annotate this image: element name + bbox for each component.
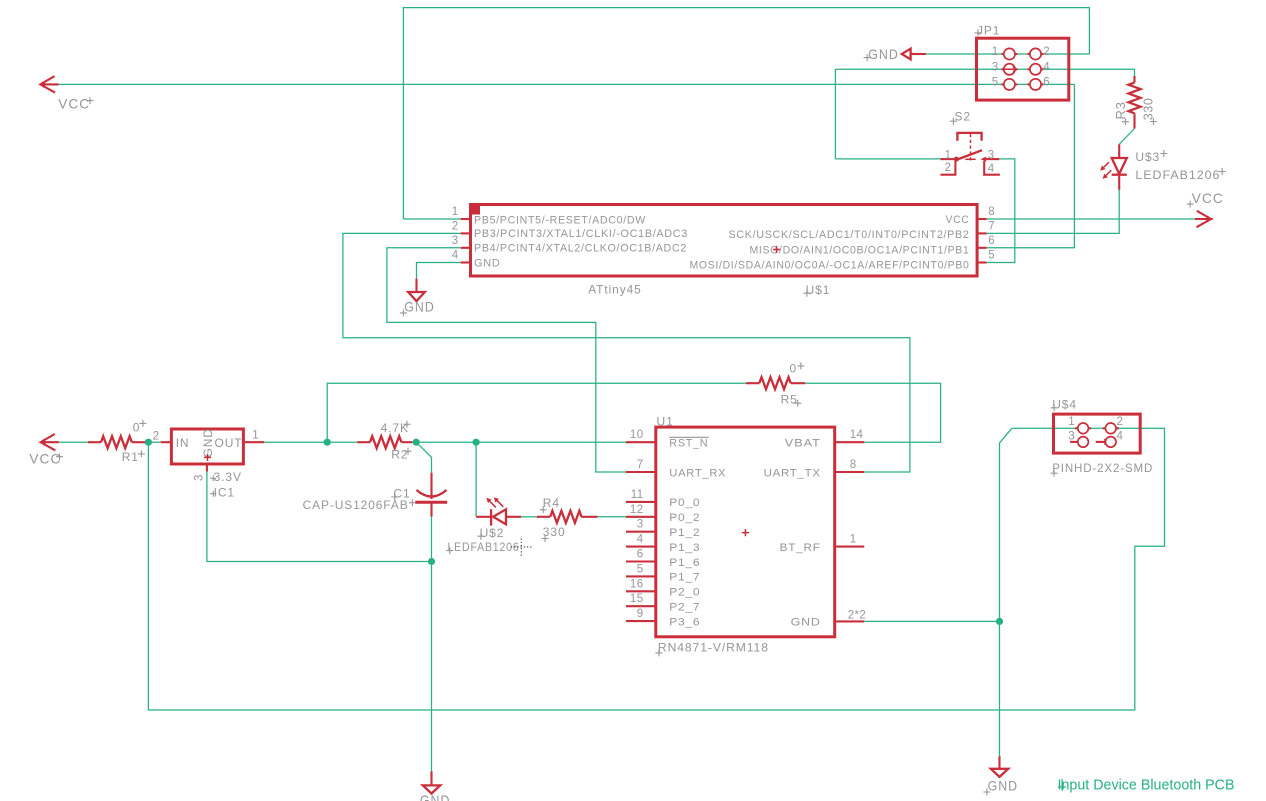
resistor R3 330 vertical	[1133, 76, 1135, 83]
LED U$3	[1118, 144, 1120, 158]
svg-text:1: 1	[452, 206, 459, 218]
svg-text:S2: S2	[955, 110, 971, 124]
wire VCC row through JP1 pins 5-6	[58, 83, 1074, 85]
svg-text:P2_7: P2_7	[669, 602, 700, 614]
svg-text:VCC: VCC	[58, 96, 90, 112]
svg-text:VCC: VCC	[29, 450, 61, 466]
IC U1 RN4871 box	[656, 427, 835, 637]
wire junction to C1 diagonal	[416, 442, 431, 473]
svg-text:R3: R3	[1113, 101, 1128, 119]
junction dot C1 branch	[413, 439, 420, 446]
wire bottom rail	[148, 428, 1164, 710]
svg-text:U$1: U$1	[806, 283, 831, 297]
ATtiny pin 3 stub	[461, 247, 469, 249]
svg-text:1: 1	[945, 149, 952, 161]
U1 pin 6 stub	[626, 560, 656, 562]
wire C1 junction down to GND	[431, 562, 433, 772]
svg-text:14: 14	[850, 429, 864, 441]
ATtiny pin 7 stub	[978, 232, 986, 234]
junction dot LED branch	[473, 439, 480, 446]
svg-text:R5: R5	[781, 393, 798, 407]
svg-text:P1_7: P1_7	[669, 572, 700, 584]
wire R5 left to junction	[327, 383, 746, 442]
svg-text:P3_6: P3_6	[669, 616, 700, 628]
wire regulator OUT to R2	[264, 441, 357, 443]
svg-text:4: 4	[988, 163, 995, 175]
wire LED U$3 to ATtiny pin7	[984, 190, 1119, 234]
svg-text:RST_N: RST_N	[669, 438, 708, 450]
svg-text:PB4/PCINT4/XTAL2/CLKO/OC1B/ADC: PB4/PCINT4/XTAL2/CLKO/OC1B/ADC2	[474, 243, 687, 255]
svg-text:1: 1	[252, 430, 259, 442]
svg-text:PINHD-2X2-SMD: PINHD-2X2-SMD	[1052, 461, 1153, 475]
svg-text:4: 4	[637, 534, 644, 546]
svg-text:R4: R4	[543, 496, 560, 510]
U1 pin 14 stub	[835, 441, 865, 443]
svg-text:10: 10	[630, 429, 644, 441]
svg-text:OUT: OUT	[215, 436, 243, 450]
svg-text:6: 6	[637, 549, 644, 561]
svg-text:LEDFAB1206: LEDFAB1206	[448, 540, 520, 554]
wire S2 pin3 to ATtiny pin5	[984, 159, 1015, 263]
svg-text:6: 6	[1043, 77, 1050, 89]
svg-text:P2_0: P2_0	[669, 587, 700, 599]
svg-text:1: 1	[850, 534, 857, 546]
resistor R2 4.7K	[357, 441, 370, 443]
LED U$2	[476, 516, 491, 518]
svg-text:GND: GND	[420, 792, 451, 801]
svg-text:0: 0	[133, 421, 141, 435]
svg-text:UART_RX: UART_RX	[669, 467, 726, 479]
U1 pin 16 stub	[626, 590, 656, 592]
svg-text:2: 2	[1117, 416, 1124, 428]
wire JP1 row1 GND to pin2	[926, 53, 1090, 55]
svg-text:GND: GND	[791, 617, 821, 629]
svg-text:3: 3	[1068, 431, 1075, 443]
wire regulator GND pin3 run	[207, 472, 432, 562]
connector JP1	[977, 38, 1069, 100]
U1 pin 10 stub	[626, 441, 656, 443]
svg-text:3: 3	[992, 62, 999, 74]
wire R4 to U1 P0_2	[598, 516, 627, 518]
U$4 pin 4 pad	[1105, 437, 1116, 448]
wire LED U$2 to R4	[521, 516, 537, 518]
U1 pin 1 stub	[835, 546, 865, 548]
svg-text:2: 2	[945, 162, 952, 174]
supply VCC top-left arrow	[40, 76, 58, 92]
svg-text:MISO/DO/AIN1/OC0B/OC1A/PCINT1/: MISO/DO/AIN1/OC0B/OC1A/PCINT1/PB1	[750, 245, 970, 257]
svg-text:0: 0	[790, 362, 798, 376]
svg-text:3: 3	[452, 235, 459, 247]
ground GND symbol at ATtiny pin4	[415, 279, 417, 292]
svg-text:3.3V: 3.3V	[214, 470, 242, 484]
JP1 pin 2 pad	[1030, 48, 1041, 59]
resistor R1 0 ohm	[88, 441, 101, 443]
svg-text:15: 15	[630, 593, 644, 605]
U1 pin 2*2 GND stub	[835, 620, 865, 622]
svg-text:11: 11	[631, 489, 644, 501]
U$4 pin 1 pad	[1078, 423, 1089, 434]
svg-text:CAP-US1206FAB: CAP-US1206FAB	[303, 498, 409, 512]
U1 pin 5 stub	[626, 575, 656, 577]
wire ATtiny pin2 to U1 UART_TX	[343, 233, 910, 472]
U1 pin 11 stub	[626, 501, 656, 503]
header U$4 PINHD-2X2-SMD	[1054, 414, 1141, 453]
supply VCC arrow right	[1195, 211, 1213, 227]
svg-text:U$2: U$2	[480, 526, 505, 540]
U1 pin 3 stub	[626, 531, 656, 533]
ATtiny pin 1 stub	[461, 218, 469, 220]
U$4 pad nubs	[1075, 427, 1091, 429]
svg-text:3: 3	[637, 519, 644, 531]
svg-text:P1_6: P1_6	[669, 557, 700, 569]
wire U$4 diagonal down to U1 GND junction	[1000, 428, 1012, 621]
junction dot R1 right	[145, 439, 152, 446]
svg-text:2: 2	[1043, 46, 1050, 58]
U1 pin 9 stub	[626, 620, 656, 622]
svg-text:4: 4	[452, 250, 459, 262]
svg-text:MOSI/DI/SDA/AIN0/OC0A/-OC1A/AR: MOSI/DI/SDA/AIN0/OC0A/-OC1A/AREF/PCINT0/…	[690, 260, 970, 272]
wire JP1 pin6 down to ATtiny pin6	[984, 84, 1075, 247]
svg-text:7: 7	[988, 221, 995, 233]
regulator pin 1	[245, 441, 264, 443]
JP1 pin 5 pad	[1004, 79, 1015, 90]
svg-text:3: 3	[193, 474, 205, 481]
svg-text:2: 2	[452, 221, 459, 233]
U1 pin 8 stub	[835, 471, 865, 473]
U$4 pin 2 pad	[1105, 423, 1116, 434]
U$4 pin 3 pad	[1078, 437, 1089, 448]
regulator pin 3	[206, 466, 208, 472]
wire ATtiny pin1 stub run	[403, 218, 460, 220]
wire ATtiny pin4 to GND	[417, 263, 461, 279]
ATtiny pin 8 stub	[978, 218, 986, 220]
voltage regulator IC1 box	[171, 429, 243, 464]
svg-text:4: 4	[1043, 62, 1050, 74]
svg-text:12: 12	[630, 504, 644, 516]
mouse cursor crosshair	[511, 539, 533, 558]
svg-text:330: 330	[1142, 98, 1156, 121]
JP1 pad nubs	[1001, 53, 1017, 55]
junction dot R5 branch	[324, 439, 331, 446]
svg-text:6: 6	[988, 235, 995, 247]
svg-text:ATtiny45: ATtiny45	[588, 283, 642, 297]
wire R2 to U1 RST_N row	[412, 441, 626, 443]
ground GND symbol bottom left	[430, 771, 432, 785]
wire R3 to LED U$3 diagonal	[1119, 129, 1134, 145]
svg-text:P0_0: P0_0	[669, 497, 700, 509]
wire junction down to LED U$2	[475, 442, 477, 517]
ATtiny pin 2 stub	[461, 232, 469, 234]
ATtiny pin 5 stub	[978, 261, 986, 263]
svg-text:R2: R2	[391, 448, 408, 462]
svg-text:VCC: VCC	[1192, 190, 1224, 206]
svg-text:2*2: 2*2	[848, 609, 866, 621]
supply GND arrow at JP1	[902, 49, 911, 60]
JP1 pin 3 pad	[1004, 64, 1015, 75]
svg-text:LEDFAB1206: LEDFAB1206	[1135, 168, 1220, 182]
U1 pin 7 stub	[626, 471, 656, 473]
svg-text:P1_2: P1_2	[669, 527, 700, 539]
svg-text:8: 8	[850, 459, 857, 471]
wire ATtiny pin8 to VCC arrow	[984, 218, 1195, 220]
svg-text:1: 1	[1068, 416, 1075, 428]
JP1 pin 1 pad	[1004, 48, 1015, 59]
U1 pin 4 stub	[626, 546, 656, 548]
svg-text:JP1: JP1	[977, 24, 1000, 38]
svg-text:SCK/USCK/SCL/ADC1/T0/INT0/PCIN: SCK/USCK/SCL/ADC1/T0/INT0/PCINT2/PB2	[729, 229, 970, 241]
svg-text:IN: IN	[176, 436, 190, 450]
IC U$1 ATtiny45 box	[471, 205, 978, 277]
svg-text:U$3: U$3	[1135, 150, 1160, 164]
svg-text:PB3/PCINT3/XTAL1/CLKI/-OC1B/AD: PB3/PCINT3/XTAL1/CLKI/-OC1B/ADC3	[474, 228, 688, 240]
wire R1 to regulator IN	[145, 441, 161, 443]
svg-text:3: 3	[988, 149, 995, 161]
svg-text:VCC: VCC	[946, 214, 970, 226]
JP1 pin 4 pad	[1030, 64, 1041, 75]
svg-text:GND: GND	[868, 46, 899, 62]
ground GND symbol bottom right	[998, 756, 1000, 769]
junction dot C1 GND	[428, 558, 435, 565]
svg-text:U$4: U$4	[1052, 397, 1077, 411]
ATtiny pin 4 stub	[461, 261, 469, 263]
svg-text:R1: R1	[122, 450, 139, 464]
JP1 pin 6 pad	[1030, 79, 1041, 90]
svg-text:5: 5	[988, 250, 995, 262]
wire junction to GND symbol bottom right	[999, 621, 1001, 756]
svg-text:GND: GND	[404, 299, 435, 315]
svg-text:VBAT: VBAT	[785, 438, 821, 450]
svg-text:330: 330	[543, 525, 566, 539]
svg-text:GND: GND	[988, 778, 1019, 794]
ATtiny pin 6 stub	[978, 247, 986, 249]
U1 pin 15 stub	[626, 605, 656, 607]
svg-text:U1: U1	[657, 414, 674, 428]
svg-text:IC1: IC1	[214, 485, 235, 499]
svg-text:4: 4	[1117, 431, 1124, 443]
svg-text:BT_RF: BT_RF	[780, 542, 821, 554]
capacitor C1	[430, 473, 432, 499]
svg-text:GND: GND	[474, 258, 501, 270]
resistor R5 0 ohm	[746, 382, 759, 384]
resistor R4 330	[537, 516, 550, 518]
U1 origin cross	[742, 529, 749, 536]
supply VCC arrow lower-left	[41, 434, 59, 450]
U1 pin 12 stub	[626, 516, 656, 518]
svg-text:5: 5	[637, 563, 644, 575]
svg-text:UART_TX: UART_TX	[764, 467, 821, 479]
svg-text:1: 1	[992, 46, 999, 58]
wire ATtiny pin3 to U1 UART_RX	[387, 248, 626, 472]
wire S2 pin1	[835, 158, 940, 160]
svg-text:PB5/PCINT5/-RESET/ADC0/DW: PB5/PCINT5/-RESET/ADC0/DW	[474, 215, 646, 227]
svg-text:P0_2: P0_2	[669, 512, 700, 524]
svg-text:2: 2	[153, 431, 160, 443]
wire C1 bottom	[431, 516, 433, 561]
svg-text:P1_3: P1_3	[669, 542, 700, 554]
wire VCC arrow to R1	[58, 441, 88, 443]
wire top loop JP1 pin2 to ATtiny pin1	[403, 8, 1089, 219]
svg-text:7: 7	[637, 459, 644, 471]
svg-text:5: 5	[992, 77, 999, 89]
svg-text:GND: GND	[201, 428, 215, 457]
wire U1 GND to junction	[864, 620, 999, 622]
svg-text:4.7K: 4.7K	[381, 421, 409, 435]
svg-text:16: 16	[630, 578, 644, 590]
regulator pin 2	[161, 441, 170, 443]
wire JP1 row3 to R3	[835, 69, 1134, 159]
junction dot U1 GND	[996, 618, 1003, 625]
svg-text:8: 8	[988, 206, 995, 218]
svg-text:RN4871-V/RM118: RN4871-V/RM118	[658, 641, 769, 655]
svg-text:9: 9	[637, 608, 644, 620]
svg-text:Input Device Bluetooth PCB: Input Device Bluetooth PCB	[1058, 776, 1235, 793]
wire R5 right to U1 VBAT	[805, 383, 940, 442]
